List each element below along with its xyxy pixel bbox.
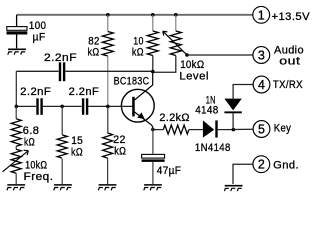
node rail-pot junction bbox=[174, 13, 178, 17]
ground under 100uF bbox=[8, 49, 26, 54]
resistor R 6.8k bbox=[15, 106, 17, 118]
svg-text:Gnd.: Gnd. bbox=[273, 159, 299, 171]
terminal 2 bbox=[253, 156, 270, 173]
capacitor C 100uF bbox=[7, 15, 27, 49]
ground under gnd terminal bbox=[224, 186, 242, 191]
terminal 1 bbox=[253, 6, 270, 23]
capacitor C 47uF bbox=[142, 154, 165, 158]
resistor R 15k bbox=[61, 106, 63, 134]
node right bbox=[106, 105, 110, 109]
capacitor C 2.2nF top bbox=[59, 62, 61, 81]
diode D 1N4148 horizontal bbox=[203, 120, 214, 137]
svg-text:82: 82 bbox=[88, 35, 100, 47]
node left bbox=[14, 105, 18, 109]
svg-text:1N4148: 1N4148 bbox=[195, 142, 231, 154]
svg-text:5: 5 bbox=[258, 123, 265, 137]
node collector junction bbox=[151, 70, 155, 74]
svg-text:2.2nF: 2.2nF bbox=[44, 52, 77, 64]
svg-text:Freq.: Freq. bbox=[24, 171, 54, 183]
svg-text:15: 15 bbox=[71, 135, 83, 147]
node mid bbox=[60, 105, 64, 109]
svg-text:10kΩ: 10kΩ bbox=[25, 160, 47, 172]
svg-text:3: 3 bbox=[258, 49, 265, 63]
svg-text:4: 4 bbox=[258, 78, 265, 92]
svg-text:22: 22 bbox=[113, 134, 126, 146]
svg-text:2.2nF: 2.2nF bbox=[69, 86, 100, 98]
transistor Q BC183C bbox=[121, 89, 154, 122]
svg-text:1: 1 bbox=[258, 8, 265, 22]
svg-text:out: out bbox=[279, 56, 300, 68]
wire gnd terminal bbox=[233, 164, 253, 184]
node rail-82k junction bbox=[106, 13, 110, 17]
potentiometer 10k Level bbox=[175, 15, 177, 31]
svg-text:kΩ: kΩ bbox=[24, 137, 35, 149]
svg-text:10kΩ: 10kΩ bbox=[180, 59, 204, 71]
potentiometer 10k Freq bbox=[15, 146, 17, 149]
svg-text:47µF: 47µF bbox=[157, 165, 182, 177]
terminal 4 bbox=[253, 76, 270, 93]
svg-text:kΩ: kΩ bbox=[88, 47, 100, 59]
ground under 22k bbox=[98, 185, 116, 190]
wire left column bbox=[15, 71, 17, 106]
svg-text:BC183C: BC183C bbox=[114, 76, 150, 88]
terminal 5 bbox=[253, 121, 270, 138]
svg-text:Level: Level bbox=[179, 70, 208, 82]
resistor R 22k bbox=[107, 106, 109, 133]
svg-text:2.2kΩ: 2.2kΩ bbox=[159, 112, 190, 124]
svg-text:100: 100 bbox=[29, 20, 46, 32]
svg-text:TX/RX: TX/RX bbox=[273, 79, 303, 91]
svg-text:Audio: Audio bbox=[274, 44, 304, 56]
ground under 47uF bbox=[144, 185, 162, 190]
svg-text:6.8: 6.8 bbox=[23, 125, 40, 137]
wire feedback top bbox=[16, 70, 152, 72]
svg-text:10: 10 bbox=[133, 35, 144, 47]
svg-text:2.2nF: 2.2nF bbox=[20, 86, 51, 98]
node rail-10k junction bbox=[151, 13, 155, 17]
wire V+ rail bbox=[17, 14, 253, 16]
capacitor C 2.2nF B bbox=[82, 98, 84, 115]
resistor R 10k collector load bbox=[152, 15, 154, 31]
svg-text:+13.5V: +13.5V bbox=[272, 11, 311, 23]
wire base line bbox=[16, 105, 132, 107]
diode D 1N4148 vertical bbox=[233, 85, 253, 99]
resistor R 2.2k bbox=[153, 129, 163, 131]
svg-text:kΩ: kΩ bbox=[71, 146, 83, 158]
svg-text:2: 2 bbox=[258, 158, 265, 172]
ground under Freq pot bbox=[7, 185, 25, 190]
node wiper junction bbox=[185, 53, 189, 57]
resistor R 82k bbox=[107, 15, 109, 32]
svg-text:kΩ: kΩ bbox=[132, 47, 144, 59]
ground under 15k bbox=[54, 185, 72, 190]
node emitter bbox=[151, 128, 155, 132]
svg-text:kΩ: kΩ bbox=[114, 145, 126, 157]
svg-text:µF: µF bbox=[33, 31, 46, 43]
capacitor C 2.2nF A bbox=[36, 98, 38, 115]
svg-text:Key: Key bbox=[274, 122, 292, 134]
wire wiper to audio out bbox=[187, 54, 253, 56]
node key bbox=[232, 128, 236, 132]
terminal 3 bbox=[253, 47, 270, 64]
svg-text:4148: 4148 bbox=[195, 104, 218, 116]
